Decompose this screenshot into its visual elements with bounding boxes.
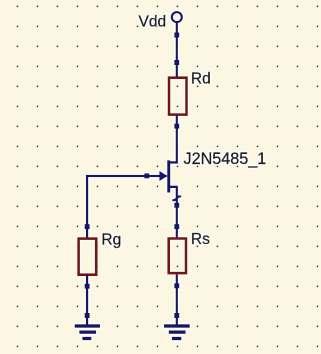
svg-text:Rd: Rd	[191, 71, 211, 88]
pin end square Rd top	[174, 60, 179, 65]
transistor J2N5485_1 JFET	[147, 160, 182, 200]
pin end square Rs top	[174, 224, 179, 229]
resistor Rs	[169, 239, 186, 274]
svg-text:Vdd: Vdd	[139, 13, 167, 30]
JFET gate arrow	[159, 171, 167, 181]
resistor Rg	[79, 239, 97, 275]
wire Rd to JFET drain	[176, 116, 178, 164]
wire Rg to left ground	[86, 275, 88, 325]
ground symbol right	[164, 326, 190, 339]
pin end square Rs bottom	[174, 283, 179, 288]
JFET gate lead	[147, 175, 167, 177]
pin end square left ground	[85, 313, 90, 318]
wire JFET source down to Rs	[176, 187, 178, 238]
JFET source slash mark	[173, 196, 180, 200]
pin end square Rg bottom	[85, 284, 90, 289]
wire Rs to right ground	[176, 274, 178, 325]
wire corner down to Rg	[86, 175, 88, 238]
power port Vdd terminal circle	[172, 12, 182, 22]
JFET drain lead	[168, 161, 178, 163]
pin end square gate	[144, 173, 149, 178]
svg-text:Rg: Rg	[101, 231, 121, 248]
ground symbol left	[75, 326, 100, 339]
wire Vdd port to Rd	[176, 23, 178, 78]
pin end square Vdd port	[174, 33, 179, 38]
svg-text:Rs: Rs	[191, 231, 210, 248]
pin end square source	[174, 203, 179, 208]
pin end square Rg top	[85, 224, 90, 229]
pin end square right ground	[174, 313, 179, 318]
JFET source lead	[168, 186, 178, 188]
resistor Rd	[169, 78, 187, 115]
svg-text:J2N5485_1: J2N5485_1	[184, 150, 267, 168]
pin end square Rd bottom	[174, 124, 179, 129]
wire gate to Rg corner	[86, 175, 147, 177]
JFET channel bar	[167, 160, 170, 192]
